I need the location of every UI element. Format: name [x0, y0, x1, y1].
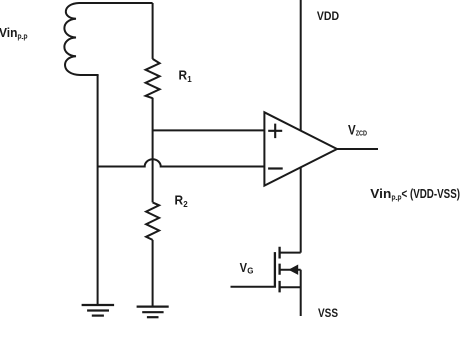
wire output: [337, 148, 378, 150]
body stub: [280, 269, 301, 271]
wire source to VSS: [300, 270, 302, 316]
svg-text:R: R: [179, 69, 188, 83]
svg-text:V: V: [348, 122, 356, 137]
svg-text:1: 1: [187, 75, 192, 84]
inductor L1: [64, 3, 80, 75]
wire gate: [231, 286, 277, 288]
wire minus input with hop over vertical: [98, 159, 265, 166]
svg-text:Vin: Vin: [0, 25, 18, 40]
gate plate: [274, 252, 276, 287]
svg-text:P-P: P-P: [18, 34, 28, 43]
svg-text:< (VDD-VSS): < (VDD-VSS): [402, 186, 461, 201]
wire inductor bottom: [80, 74, 99, 76]
wire left vertical to ground: [97, 75, 99, 305]
wire top (inductor top to R1 top): [79, 2, 153, 4]
ground GND right: [137, 307, 169, 318]
svg-text:V: V: [240, 260, 248, 275]
resistor R2: [146, 202, 159, 240]
svg-text:2: 2: [183, 200, 188, 209]
source stub: [280, 286, 301, 288]
wire R1 bottom to R2 top: [152, 98, 154, 203]
wire plus input: [153, 129, 265, 131]
svg-text:G: G: [247, 266, 253, 275]
wire R1 top lead: [152, 3, 154, 59]
svg-text:P-P: P-P: [392, 195, 402, 204]
resistor R1: [146, 59, 160, 98]
op-amp U1: [264, 112, 337, 185]
svg-text:Vin: Vin: [370, 186, 391, 201]
mosfet Q1: [275, 247, 301, 293]
body arrow: [288, 265, 298, 275]
svg-text:VSS: VSS: [318, 306, 338, 320]
wire R2 bottom lead: [152, 240, 154, 307]
ground GND left: [82, 305, 115, 316]
svg-text:ZCD: ZCD: [356, 129, 368, 138]
channel segments: [278, 247, 280, 293]
wire op-amp bottom to mosfet drain: [300, 163, 302, 253]
svg-text:R: R: [175, 193, 184, 207]
wire VDD vertical: [300, 0, 302, 135]
drain stub: [280, 252, 301, 254]
svg-text:VDD: VDD: [317, 9, 339, 23]
